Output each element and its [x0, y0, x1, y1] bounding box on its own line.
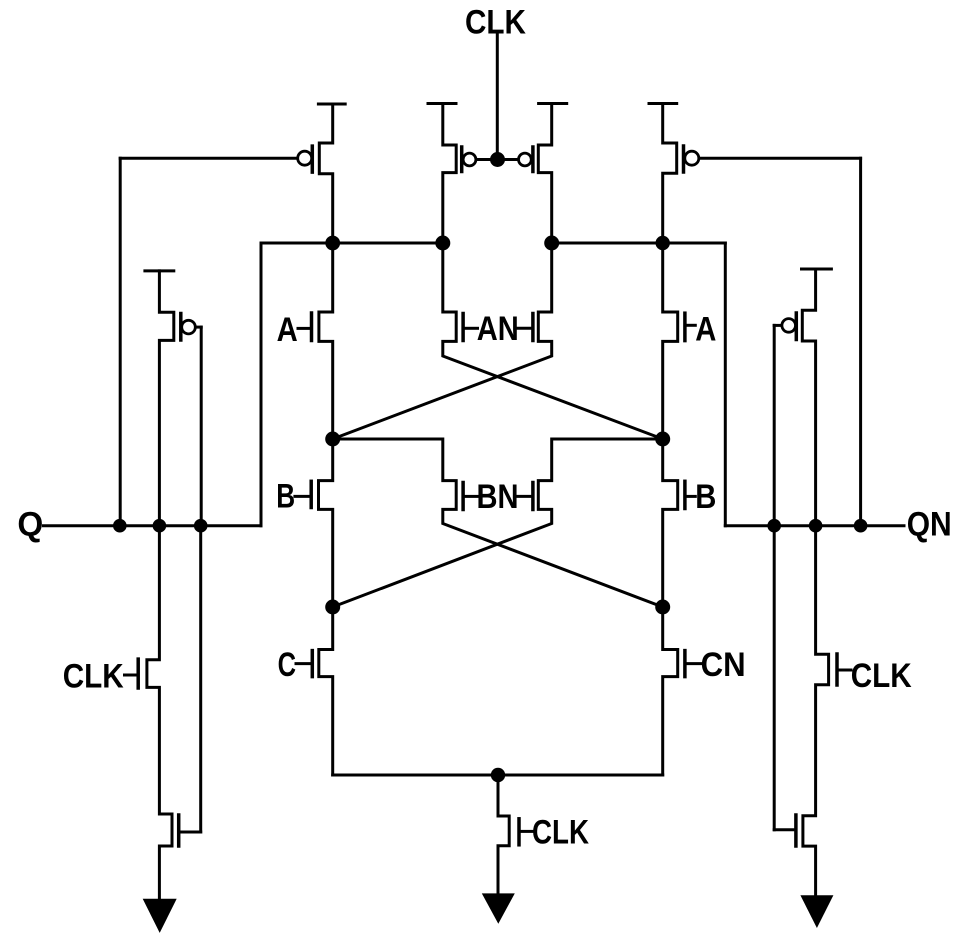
svg-text:Q: Q — [17, 506, 43, 543]
svg-text:CLK: CLK — [63, 658, 124, 696]
svg-text:B: B — [695, 477, 716, 516]
svg-text:QN: QN — [907, 506, 952, 544]
svg-text:CN: CN — [701, 646, 746, 684]
svg-text:BN: BN — [477, 478, 519, 516]
svg-text:C: C — [278, 647, 296, 684]
svg-text:AN: AN — [477, 310, 519, 348]
svg-text:CLK: CLK — [465, 4, 526, 42]
svg-text:B: B — [276, 478, 295, 515]
svg-text:CLK: CLK — [851, 657, 912, 695]
svg-text:A: A — [277, 310, 298, 349]
svg-text:A: A — [695, 309, 716, 348]
svg-text:CLK: CLK — [532, 814, 589, 852]
